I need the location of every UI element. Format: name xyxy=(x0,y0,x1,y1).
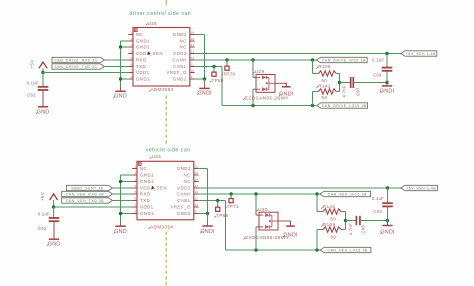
net flag CAN_VEH_RXD xyxy=(62,191,113,196)
wire CANH xyxy=(195,59,317,61)
svg-text:60: 60 xyxy=(322,78,328,83)
svg-text:TXD: TXD xyxy=(140,198,150,203)
junction CANH-R100 xyxy=(311,58,314,61)
resistor R142 xyxy=(323,209,341,214)
svg-text:4.7nF: 4.7nF xyxy=(342,85,347,97)
junction pin9 GND2 c2 xyxy=(206,212,209,215)
svg-text:VDD2: VDD2 xyxy=(177,186,191,191)
svg-text:7: 7 xyxy=(131,69,133,73)
wire VDD2_SEN c2 xyxy=(113,187,133,189)
junction CANL-TP69 xyxy=(216,199,219,202)
junction CANH-ESD xyxy=(251,58,254,61)
svg-text:CAN_VEH_RXD 3B: CAN_VEH_RXD 3B xyxy=(66,192,105,196)
svg-text:1: 1 xyxy=(135,165,137,169)
svg-text:9: 9 xyxy=(195,210,197,214)
svg-text:GNDI: GNDI xyxy=(197,90,212,96)
svg-text:R100: R100 xyxy=(318,64,331,69)
wire CANL c2 xyxy=(199,200,226,202)
test point TP71 xyxy=(225,199,239,210)
ground GNDI below C64 xyxy=(380,82,395,95)
junction pin8 GND1 xyxy=(119,77,122,80)
wire GND1 bus vertical xyxy=(120,41,122,87)
wire R100-R141 right vertical xyxy=(339,74,341,92)
junction pin3 GND1 xyxy=(119,45,122,48)
wire GNDI node to ground c2 xyxy=(387,221,389,226)
test point TP70 xyxy=(222,66,236,76)
svg-text:7: 7 xyxy=(135,203,137,207)
svg-text:CAN_VEH_LO15 1B: CAN_VEH_LO15 1B xyxy=(328,248,368,252)
wire +5V node to C62 xyxy=(53,207,55,218)
TVS diode U30 ESDCAN05-2BWY xyxy=(256,212,291,230)
svg-text:+5V_VEH 1,4B: +5V_VEH 1,4B xyxy=(406,186,436,190)
svg-text:C62: C62 xyxy=(38,226,47,231)
svg-text:10: 10 xyxy=(195,203,199,207)
junction LO-R169 xyxy=(315,248,318,251)
svg-text:NC: NC xyxy=(136,32,143,37)
junction CANH-R142 xyxy=(315,192,318,195)
svg-text:13: 13 xyxy=(195,184,199,188)
wire CANH to U29 xyxy=(252,60,254,77)
junction LO-R141 xyxy=(311,104,314,107)
svg-text:5: 5 xyxy=(131,56,133,60)
net flag VDD2_SENT xyxy=(67,185,113,190)
capacitor C61 0.1uF xyxy=(27,80,49,97)
svg-text:U25: U25 xyxy=(148,21,158,26)
junction rail-C64 xyxy=(385,52,388,55)
wire U29 to LO xyxy=(252,89,254,105)
svg-text:C63: C63 xyxy=(373,209,382,214)
wire to TP71 xyxy=(230,194,232,199)
wire C61 to GND xyxy=(42,91,44,107)
wire CANL vertical descent c2 xyxy=(225,201,227,251)
net flag CAN_DRIVE_RXD xyxy=(52,57,104,62)
wire +5V stem c2 xyxy=(53,200,55,207)
IC U26 ADM3054 CAN transceiver xyxy=(132,154,198,229)
svg-text:GND: GND xyxy=(48,242,61,248)
svg-text:VREF_O: VREF_O xyxy=(170,205,191,210)
svg-text:GND: GND xyxy=(114,94,127,100)
junction CANH-ESD c2 xyxy=(254,192,257,195)
cursor glyph on pin 4 name circuit2 xyxy=(151,186,155,190)
frame dashed separator line xyxy=(165,0,167,286)
wire R169 right lead xyxy=(341,229,346,231)
svg-text:3: 3 xyxy=(135,178,137,182)
wire +5V node to C61 xyxy=(42,73,44,87)
ground GND below U25 left xyxy=(113,87,127,100)
wire GND2 down xyxy=(204,79,206,84)
wire GND1 pin3 xyxy=(121,46,129,48)
wire R100 left lead xyxy=(313,73,319,75)
svg-text:12: 12 xyxy=(191,56,195,60)
junction pin9 GND2 xyxy=(203,77,206,80)
svg-text:GND2: GND2 xyxy=(177,166,191,171)
wire GND1 pin3 c2 xyxy=(121,181,133,183)
svg-text:TP68: TP68 xyxy=(212,78,224,83)
label ESDCAN05-2BWY c2 xyxy=(244,235,290,240)
svg-text:CANL: CANL xyxy=(173,64,187,69)
svg-text:60: 60 xyxy=(331,216,337,221)
label R100 xyxy=(316,64,330,69)
svg-text:U30: U30 xyxy=(258,207,268,212)
wire R142-R169 right vertical xyxy=(345,212,347,230)
svg-text:CAN_VEH_HI15 1B: CAN_VEH_HI15 1B xyxy=(328,192,367,196)
net flag CAN_VEH_HI xyxy=(320,191,371,196)
TVS diode U29 ESDCAN05-2BWY xyxy=(253,75,286,93)
svg-text:60: 60 xyxy=(331,234,337,239)
wire TXD c2 xyxy=(113,200,133,202)
svg-text:U26: U26 xyxy=(152,154,162,159)
wire +5V to VDD1 pin7 c2 xyxy=(54,206,133,208)
wire CAN_VEH_LO xyxy=(226,249,321,251)
resistor R100 xyxy=(319,71,337,76)
svg-text:ADM3054: ADM3054 xyxy=(151,87,174,92)
net flag +5V_VEH circuit1 xyxy=(401,51,437,56)
svg-text:R142: R142 xyxy=(323,204,336,209)
svg-text:GND1: GND1 xyxy=(136,45,150,50)
wire GND1 pin2 c2 xyxy=(121,174,133,176)
ground GNDI at U29 xyxy=(279,83,294,98)
wire rail to C63 xyxy=(387,188,389,203)
svg-text:TP71: TP71 xyxy=(227,204,239,209)
wire GND2 down c2 xyxy=(207,214,209,223)
wire +5V_VEH rail c2 xyxy=(199,187,401,189)
svg-text:GNDI: GNDI xyxy=(279,92,294,98)
svg-text:13: 13 xyxy=(191,50,195,54)
svg-text:NC: NC xyxy=(180,45,187,50)
svg-text:6: 6 xyxy=(131,63,133,67)
wire GND1 bus vertical c2 xyxy=(120,175,122,222)
junction termination midpoint c2 xyxy=(344,219,347,222)
svg-text:VDD1: VDD1 xyxy=(136,70,150,75)
svg-text:GND1: GND1 xyxy=(140,211,154,216)
ground GND below C62 xyxy=(47,235,61,248)
junction rail-C63 xyxy=(386,186,389,189)
net flag +5V_VEH circuit2 xyxy=(401,185,438,190)
svg-text:CANL: CANL xyxy=(177,198,191,203)
svg-text:RXD: RXD xyxy=(136,58,147,63)
wire midpoint to C97 xyxy=(340,82,351,84)
svg-text:ADM3054: ADM3054 xyxy=(150,224,173,229)
wire R141 left lead xyxy=(313,91,319,93)
svg-text:NC: NC xyxy=(184,173,191,178)
resistor R141 xyxy=(319,89,337,94)
wire RXD c2 xyxy=(113,193,133,195)
label U30 xyxy=(257,207,268,212)
label ESDCAN05-2BWY xyxy=(243,96,289,101)
svg-text:GNDI: GNDI xyxy=(380,230,395,236)
net flag CAN_VEH_LO xyxy=(320,247,371,252)
ground GNDI below C63 xyxy=(380,221,395,235)
svg-text:0.1uF: 0.1uF xyxy=(38,212,50,217)
svg-text:GND2: GND2 xyxy=(173,32,187,37)
ground GNDI below U26 right xyxy=(200,222,215,235)
junction +5V node xyxy=(41,71,44,74)
wire GNDI node to ground xyxy=(386,82,388,85)
label R142 xyxy=(321,204,335,209)
wire CANL xyxy=(195,66,222,68)
wire to TP68 xyxy=(213,67,215,73)
svg-text:4: 4 xyxy=(135,184,137,188)
svg-text:6: 6 xyxy=(135,197,137,201)
junction pin8 GND1 c2 xyxy=(119,212,122,215)
svg-text:NC: NC xyxy=(140,166,147,171)
svg-text:TP70: TP70 xyxy=(223,71,235,76)
svg-text:14: 14 xyxy=(191,43,195,47)
label U29 xyxy=(253,69,264,74)
svg-text:GNDI: GNDI xyxy=(380,88,395,94)
svg-text:0.1uF: 0.1uF xyxy=(372,57,384,62)
ground GNDI below U25 right xyxy=(197,84,212,96)
wire CANH c2 xyxy=(199,193,320,195)
svg-text:GNDI: GNDI xyxy=(200,229,215,235)
svg-text:CANH: CANH xyxy=(176,192,190,197)
svg-text:+5V: +5V xyxy=(30,59,35,69)
svg-text:C64: C64 xyxy=(373,73,382,78)
wire RXD xyxy=(104,59,128,61)
svg-text:8: 8 xyxy=(131,75,133,79)
svg-text:C98: C98 xyxy=(360,225,365,234)
junction CANH-TP71 xyxy=(229,192,232,195)
wire +5V_VEH rail xyxy=(195,53,401,55)
svg-text:11: 11 xyxy=(195,197,198,201)
net flag CAN_VEH_TXD xyxy=(62,198,113,203)
svg-text:3: 3 xyxy=(131,43,133,47)
net flag CAN_DRIVE_HI xyxy=(316,57,367,62)
svg-text:GND2: GND2 xyxy=(173,77,187,82)
wire to TP69 xyxy=(217,201,219,208)
wire CANH to U30 xyxy=(255,194,257,215)
capacitor C98 4.7nF xyxy=(348,216,366,236)
label R141 xyxy=(316,83,330,88)
wire C62 to GND xyxy=(53,222,55,239)
svg-text:CAN_DRIVE_HI15 1A: CAN_DRIVE_HI15 1A xyxy=(322,58,366,62)
junction CANH-TP70 xyxy=(225,58,228,61)
svg-text:VDD2_SENT 3B: VDD2_SENT 3B xyxy=(71,186,103,190)
svg-text:TP69: TP69 xyxy=(216,213,228,218)
wire GND1 pin2 xyxy=(121,40,129,42)
svg-text:GND1: GND1 xyxy=(140,179,154,184)
svg-text:5: 5 xyxy=(135,190,137,194)
wire C64 to GNDI node xyxy=(386,71,388,83)
wire U30 to LO xyxy=(255,227,257,250)
svg-text:GND2: GND2 xyxy=(177,211,191,216)
svg-text:U29: U29 xyxy=(255,69,265,74)
wire CANH to R100 xyxy=(312,60,314,74)
wire GND2 bus vertical c2 xyxy=(207,169,209,214)
svg-text:2: 2 xyxy=(131,37,133,41)
wire midpoint to C98 xyxy=(346,220,357,222)
capacitor C62 0.1uF xyxy=(38,212,60,232)
svg-text:11: 11 xyxy=(191,63,194,67)
svg-text:TXD: TXD xyxy=(136,64,146,69)
resistor R169 xyxy=(323,227,341,232)
svg-text:CAN_DRIVE_LO15 1B: CAN_DRIVE_LO15 1B xyxy=(322,104,367,108)
junction +5V node c2 xyxy=(52,205,55,208)
ground GND below U26 left xyxy=(113,222,127,235)
svg-text:0.1uF: 0.1uF xyxy=(27,80,39,85)
wire rail to C64 xyxy=(386,54,388,68)
test point TP69 xyxy=(215,207,229,218)
svg-text:VREF_O: VREF_O xyxy=(166,70,187,75)
wire CAN_DRIVE_LO xyxy=(222,105,316,107)
svg-text:GNDI: GNDI xyxy=(283,233,298,239)
capacitor C97 4.7nF xyxy=(342,77,361,97)
svg-text:12: 12 xyxy=(195,190,199,194)
wire C97 to GNDI node xyxy=(353,82,387,84)
net flag CAN_DRIVE_LO xyxy=(317,103,368,108)
cursor glyph on pin 4 name xyxy=(147,51,151,55)
supply +5V arrow circuit1 xyxy=(30,59,48,69)
svg-text:4.7nF: 4.7nF xyxy=(348,223,353,235)
svg-text:2: 2 xyxy=(135,171,137,175)
IC U25 ADM3054 CAN transceiver xyxy=(128,21,194,92)
svg-text:CAN_DRIVE_TXD 3C: CAN_DRIVE_TXD 3C xyxy=(55,65,98,69)
svg-text:CAN_DRIVE_RXD 3C: CAN_DRIVE_RXD 3C xyxy=(54,58,97,62)
junction LO-ESD xyxy=(251,104,254,107)
wire R169 left lead xyxy=(317,229,323,231)
net flag CAN_DRIVE_TXD xyxy=(52,64,104,69)
wire GND2 pin16 xyxy=(195,34,205,36)
svg-text:R169: R169 xyxy=(323,222,336,227)
svg-text:GND1: GND1 xyxy=(136,39,150,44)
svg-text:C61: C61 xyxy=(27,92,36,97)
svg-text:4: 4 xyxy=(131,50,133,54)
ground GND below C61 xyxy=(36,103,50,116)
svg-text:CANH: CANH xyxy=(172,58,186,63)
svg-text:9: 9 xyxy=(191,75,193,79)
label R169 xyxy=(321,222,335,227)
svg-text:+5V_VEH 1,4B: +5V_VEH 1,4B xyxy=(406,52,436,56)
wire GND2 bus vertical xyxy=(204,35,206,80)
junction GNDI node c2 xyxy=(386,219,389,222)
wire R141 to LO xyxy=(312,92,314,106)
svg-text:8: 8 xyxy=(135,210,137,214)
svg-text:driver control side can: driver control side can xyxy=(129,11,191,17)
svg-text:GND: GND xyxy=(37,110,50,116)
wire +5V to VDD1 pin7 xyxy=(43,72,128,74)
svg-text:15: 15 xyxy=(191,37,195,41)
supply +5V arrow circuit2 xyxy=(40,191,58,201)
wire GND2 pin9 xyxy=(195,78,205,80)
wire GND2 pin16 c2 xyxy=(199,168,208,170)
ground GNDI at U30 xyxy=(283,222,298,239)
svg-text:+5V: +5V xyxy=(40,191,45,201)
wire GND1 pin8 c2 xyxy=(121,213,133,215)
svg-text:16: 16 xyxy=(191,31,195,35)
svg-text:15: 15 xyxy=(195,171,199,175)
test point TP68 xyxy=(210,72,224,83)
svg-text:GND1: GND1 xyxy=(140,173,154,178)
wire TXD xyxy=(104,66,128,68)
svg-text:C97: C97 xyxy=(356,87,361,96)
svg-text:RXD: RXD xyxy=(140,192,151,197)
wire R100 right lead xyxy=(336,73,339,75)
svg-text:16: 16 xyxy=(195,165,199,169)
junction termination midpoint xyxy=(338,81,341,84)
wire +5V stem xyxy=(42,68,44,72)
svg-text:CAN_VEH_TXD 3B: CAN_VEH_TXD 3B xyxy=(66,199,104,203)
wire GND2 pin9 c2 xyxy=(199,213,208,215)
junction CANL-TP68 xyxy=(212,65,215,68)
wire C63 to GNDI node c2 xyxy=(387,206,389,220)
wire to TP70 xyxy=(226,60,228,66)
svg-text:VDD1: VDD1 xyxy=(140,205,154,210)
capacitor C63 0.1uF xyxy=(372,196,393,214)
wire CANL vertical descent xyxy=(221,67,223,106)
junction LO-ESD c2 xyxy=(254,248,257,251)
svg-text:vehicle side can: vehicle side can xyxy=(146,147,191,153)
svg-text:1: 1 xyxy=(131,31,133,35)
svg-text:14: 14 xyxy=(195,178,199,182)
wire CANH to R142 xyxy=(316,194,318,212)
wire C98 to GNDI node c2 xyxy=(360,220,388,222)
capacitor C64 0.1uF xyxy=(372,57,392,77)
svg-text:NC: NC xyxy=(180,39,187,44)
svg-text:10: 10 xyxy=(191,69,195,73)
svg-text:GND1: GND1 xyxy=(136,77,150,82)
svg-text:R141: R141 xyxy=(318,83,331,88)
svg-text:GND: GND xyxy=(114,229,127,235)
wire R169 to LO c2 xyxy=(316,230,318,251)
wire R142 left lead xyxy=(317,211,323,213)
svg-text:VDD2: VDD2 xyxy=(173,51,187,56)
wire R142 right lead xyxy=(341,211,346,213)
svg-text:NC: NC xyxy=(184,179,191,184)
svg-text:0.1uF: 0.1uF xyxy=(372,196,384,201)
junction pin3 GND1 c2 xyxy=(119,180,122,183)
wire GND1 pin8 xyxy=(121,78,129,80)
svg-text:60: 60 xyxy=(322,95,328,100)
junction GNDI node xyxy=(385,81,388,84)
wire R141 right lead xyxy=(336,91,339,93)
